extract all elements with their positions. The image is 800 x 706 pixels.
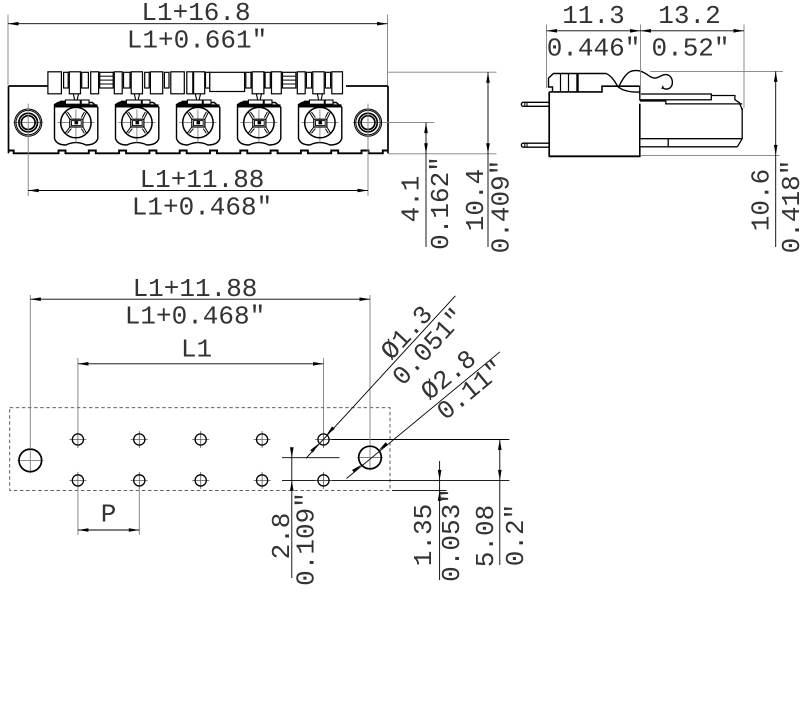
svg-text:L1+16.8: L1+16.8 (141, 0, 250, 28)
svg-text:11.3: 11.3 (562, 1, 624, 31)
svg-text:0.053": 0.053" (437, 488, 467, 582)
svg-text:L1+0.468": L1+0.468" (132, 193, 272, 223)
svg-text:5.08: 5.08 (471, 505, 501, 567)
svg-text:10.6: 10.6 (747, 169, 777, 231)
svg-text:L1+11.88: L1+11.88 (133, 274, 258, 304)
svg-text:P: P (101, 500, 117, 530)
svg-text:L1+0.468": L1+0.468" (125, 302, 265, 332)
svg-text:L1+11.88: L1+11.88 (140, 165, 265, 195)
svg-text:0.109": 0.109" (292, 492, 322, 586)
svg-text:0.162": 0.162" (426, 156, 456, 250)
svg-text:0.409": 0.409" (487, 160, 517, 254)
svg-text:0.2": 0.2" (501, 504, 531, 566)
svg-text:0.446": 0.446" (547, 34, 641, 64)
svg-text:L1+0.661": L1+0.661" (127, 26, 267, 56)
svg-text:0.418": 0.418" (777, 160, 800, 254)
svg-text:0.52": 0.52" (651, 34, 729, 64)
svg-text:13.2: 13.2 (658, 1, 720, 31)
svg-text:4.1: 4.1 (397, 176, 427, 223)
svg-text:L1: L1 (181, 335, 212, 365)
svg-text:1.35: 1.35 (409, 504, 439, 566)
